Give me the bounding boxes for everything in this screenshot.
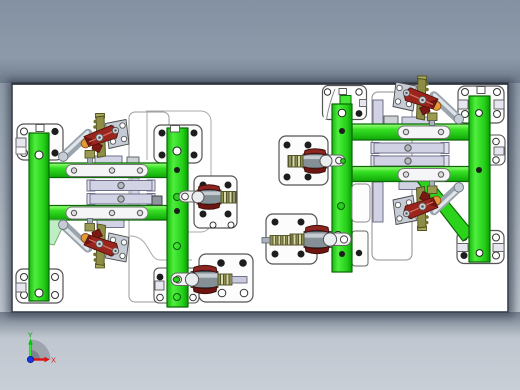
hinge plate top-right (right asm): [458, 86, 504, 123]
rod tip: [262, 238, 270, 244]
toggle clamp mid (right asm): [393, 181, 464, 231]
toggle clamp bottom-left: [59, 218, 130, 268]
hinge plate bottom-left: [16, 269, 63, 303]
green post left (right asm): [332, 104, 352, 272]
side clamp lower (left asm): [171, 265, 247, 293]
plate bottom-mid small: [154, 268, 199, 303]
hinge plate bottom-right (right asm): [457, 231, 504, 264]
bracket outline right of post bottom: [352, 184, 370, 222]
white notch on top-mid plate: [171, 126, 180, 133]
green pin in its link: [173, 277, 180, 282]
white drawing sheet: [12, 83, 508, 312]
origin dot: [27, 356, 33, 362]
hinge plate top-left (right asm): [323, 86, 367, 120]
long threaded rod of lower-left clamp: [270, 236, 291, 246]
sheet shadow: [7, 79, 514, 317]
toggle clamp top-left: [59, 114, 130, 164]
clamp shoe blocks below lower beam: [97, 220, 124, 228]
clamp plate upper-left (right asm): [279, 136, 328, 185]
toggle clamp top (right asm): [393, 76, 464, 126]
sheet top dark edge: [12, 83, 508, 85]
green post left: [29, 133, 49, 301]
plate upper-right: [194, 176, 237, 228]
svg-text:Y: Y: [28, 331, 33, 340]
green beam lower: [48, 206, 172, 221]
Y axis: [29, 345, 31, 360]
X axis: [31, 358, 45, 360]
green beam upper: [48, 163, 172, 178]
hinge plate top-mid: [154, 125, 202, 163]
side clamp upper (left asm): [179, 185, 236, 210]
green pin on its link: [341, 159, 346, 164]
backing plate center column: [129, 112, 169, 302]
lavender strip on column: [131, 178, 139, 206]
green post right (right asm): [469, 96, 490, 262]
hinge plate mid-right small: [474, 135, 505, 165]
slide rail lower (right asm): [371, 156, 379, 167]
green beam lower (right asm): [352, 167, 489, 182]
backing swoosh over plate: [324, 89, 336, 119]
small plate right of left post: [352, 231, 368, 266]
link plate on upper beam (right asm): [398, 126, 450, 139]
backing plate center column (right asm): [372, 92, 412, 260]
origin triad quarter disc: [31, 340, 51, 360]
slide rail upper (right asm): [371, 143, 379, 154]
diagonal green brace: [417, 181, 474, 241]
gray tab left of post: [152, 196, 162, 205]
clamp shoe blocks (right asm): [402, 117, 429, 125]
sheet glow shadow above: [0, 58, 520, 83]
hinge plate top-left: [17, 124, 63, 160]
backing plate big outline: [140, 111, 211, 232]
plate bottom-right: [199, 254, 253, 302]
link plate on upper beam: [66, 165, 148, 177]
lavender column strip: [373, 100, 383, 140]
side clamp upper-left (right asm): [288, 149, 345, 174]
green boss on post top: [340, 96, 351, 106]
slide rail upper: [87, 180, 95, 191]
svg-text:X: X: [51, 356, 56, 365]
clamp plate lower-left (right asm): [266, 214, 317, 264]
green beam upper (right asm): [352, 124, 489, 140]
green post right: [167, 128, 188, 307]
backing plate curve top: [130, 110, 192, 260]
slide rail lower: [87, 194, 95, 205]
side clamp lower-left (right asm): [275, 225, 351, 253]
link plate on lower beam (right asm): [398, 169, 450, 182]
sheet glow shadow below: [0, 312, 520, 338]
pale green gusset: [45, 220, 66, 245]
clamp shoe blocks above upper beam: [95, 156, 122, 165]
link plate on lower beam: [66, 207, 148, 219]
